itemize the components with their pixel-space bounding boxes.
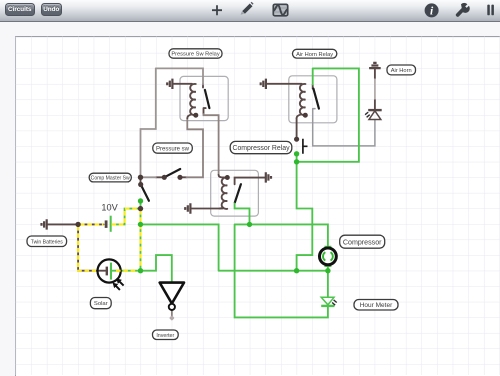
svg-text:Comp Master Sw: Comp Master Sw xyxy=(91,176,130,182)
svg-text:Twin Batteries: Twin Batteries xyxy=(31,239,63,245)
svg-text:Compressor: Compressor xyxy=(343,239,382,247)
svg-text:Solar: Solar xyxy=(94,301,108,307)
svg-text:Air Horn: Air Horn xyxy=(391,68,412,74)
svg-text:Pressure sw: Pressure sw xyxy=(156,146,190,152)
svg-text:Pressure Sw Relay: Pressure Sw Relay xyxy=(171,52,220,58)
svg-text:10V: 10V xyxy=(101,203,118,213)
svg-text:Air Horn Relay: Air Horn Relay xyxy=(296,52,333,58)
svg-text:Compressor Relay: Compressor Relay xyxy=(232,145,290,152)
svg-text:Hour Meter: Hour Meter xyxy=(360,302,393,309)
svg-text:Inverter: Inverter xyxy=(156,333,174,339)
